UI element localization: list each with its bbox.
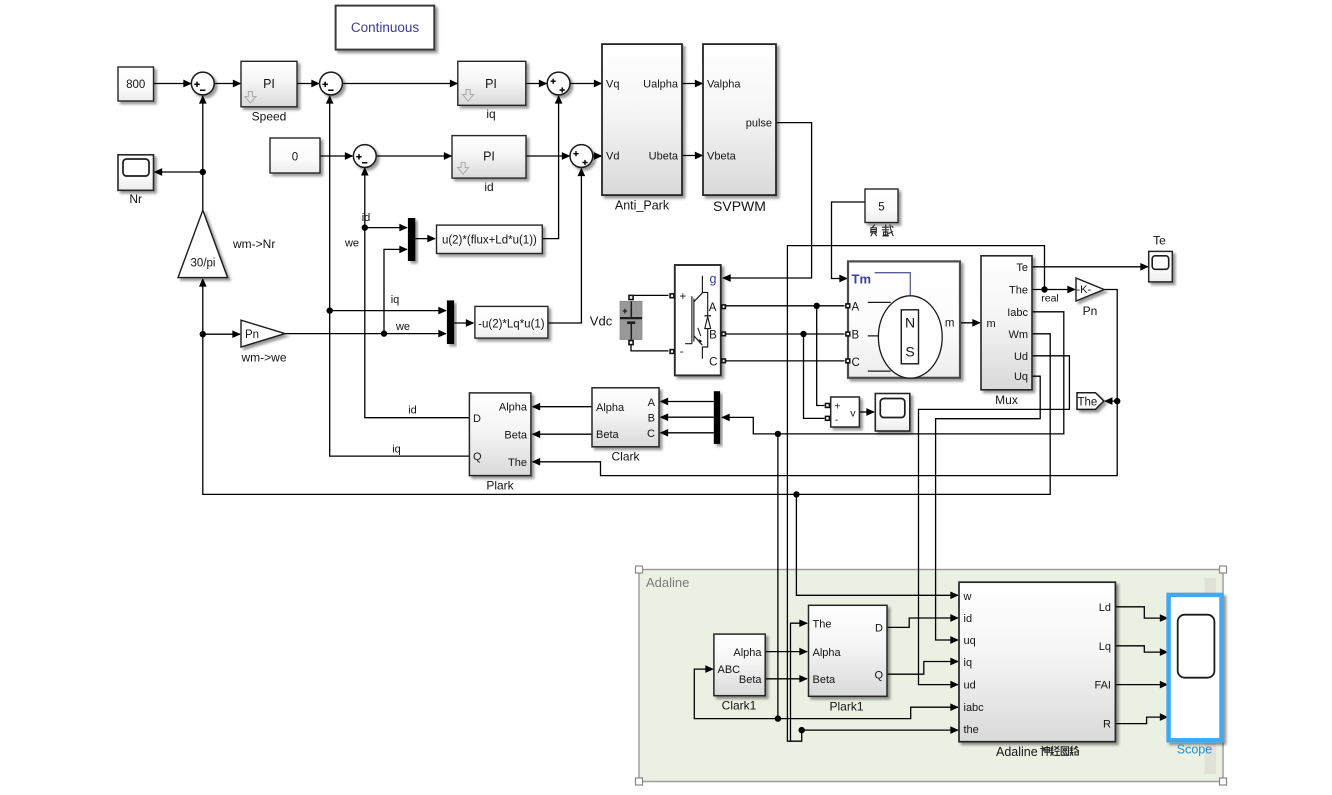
svg-text:id: id [362, 212, 371, 224]
wire Fcn Lq output up to sum Vd [548, 169, 581, 324]
svg-text:Vdc: Vdc [590, 314, 613, 329]
svg-text:Alpha: Alpha [733, 647, 762, 659]
wire inverter B to motor B [726, 333, 845, 335]
node junction theta real [1041, 286, 1047, 292]
DC voltage source Vdc [590, 295, 642, 346]
svg-text:A: A [709, 302, 717, 314]
svg-text:C: C [852, 357, 860, 369]
wire iabc loop into Clark1 ABC [694, 669, 778, 719]
svg-text:N: N [905, 315, 915, 331]
wire Plark1 Q to Adaline iq [887, 662, 958, 675]
svg-text:Beta: Beta [504, 429, 528, 441]
svg-text:Ld: Ld [1099, 602, 1111, 614]
wire speed feedback Wm: Mux Wm down and left to speed sum [203, 334, 1050, 495]
svg-text:B: B [648, 413, 655, 425]
constant 5 load [865, 189, 898, 236]
svg-text:Mux: Mux [995, 393, 1018, 407]
svg-text:uq: uq [964, 635, 976, 647]
wire iq branch to lower mux bar [330, 310, 446, 312]
svg-text:Vq: Vq [606, 79, 619, 91]
inverter bridge block [669, 265, 726, 375]
svg-text:D: D [875, 623, 883, 635]
svg-text:Vd: Vd [606, 151, 619, 163]
svg-text:w: w [963, 591, 972, 603]
wire constant 5 to motor Tm [832, 202, 866, 279]
svg-text:The: The [1009, 285, 1028, 297]
svg-text:Te: Te [1016, 262, 1028, 274]
svg-text:PI: PI [483, 150, 495, 164]
node junction id branch [362, 224, 368, 230]
wire branch to scope Nr [155, 171, 203, 173]
svg-text:m: m [945, 318, 955, 330]
wire w line into Adaline [796, 494, 958, 595]
wire 0 to sum id [320, 155, 352, 157]
svg-text:Iabc: Iabc [1007, 307, 1028, 319]
svg-text:C: C [709, 357, 717, 369]
node junction iabc demux [775, 431, 781, 437]
wire demux to Clark C [661, 432, 714, 434]
mux bar lower [447, 300, 454, 344]
scope Scope selected [1169, 595, 1222, 757]
mux bar upper [408, 218, 415, 261]
wire Clark Alpha to Plark Alpha [533, 406, 593, 408]
Continuous annotation block [336, 6, 435, 50]
svg-text:iq: iq [391, 294, 400, 306]
svg-text:Uq: Uq [1014, 371, 1028, 383]
svg-text:wm->Nr: wm->Nr [232, 237, 275, 251]
svg-text:PI: PI [263, 77, 275, 91]
svg-text:Tm: Tm [852, 272, 872, 287]
wire Adaline FAI to Scope [1115, 684, 1168, 686]
demux bar phases [714, 391, 720, 444]
wire Adaline Lq to Scope [1115, 646, 1168, 652]
Mux bus block [981, 256, 1032, 407]
wire the line into Adaline [802, 729, 958, 731]
subsystem Plark flipped [469, 393, 531, 493]
subsystem Plark1 [809, 605, 888, 713]
wire demux to Clark A [661, 401, 714, 403]
svg-text:-: - [835, 415, 838, 426]
svg-text:The: The [508, 457, 527, 469]
svg-text:Alpha: Alpha [596, 402, 625, 414]
svg-text:+: + [835, 402, 841, 413]
selection handle top-right [1220, 566, 1227, 573]
svg-text:ABC: ABC [718, 664, 741, 676]
svg-text:Pn: Pn [245, 329, 259, 341]
svg-text:The: The [813, 618, 832, 630]
wire pulse to inverter g [723, 123, 812, 278]
gain Pn wm-we [240, 320, 286, 364]
gain Pn2 [1076, 278, 1104, 318]
wire Ubeta to Vbeta [682, 155, 703, 157]
wire 800 to sum Speed [154, 83, 192, 85]
wire gain Pn2 to goto The tag [1104, 290, 1117, 402]
svg-text:Plark: Plark [486, 479, 514, 493]
wire Vdc plus to inverter [634, 294, 669, 296]
svg-text:S: S [905, 344, 914, 360]
subsystem SVPWM [703, 44, 776, 214]
svg-text:Beta: Beta [813, 674, 837, 686]
svg-text:Alpha: Alpha [499, 402, 528, 414]
PMSM motor block [845, 261, 960, 378]
svg-text:Valpha: Valpha [707, 79, 741, 91]
wire demux to Clark B [661, 416, 714, 418]
svg-text:+: + [680, 291, 687, 303]
svg-text:The: The [1078, 396, 1098, 408]
svg-text:-: - [680, 346, 684, 358]
svg-text:iq: iq [964, 657, 973, 669]
wire sum Vd to Anti_Park Vd [593, 155, 602, 157]
wire PI iq to sum Vq [526, 83, 547, 85]
svg-text:Scope: Scope [1177, 743, 1212, 757]
wire sum Vq to Anti_Park Vq [570, 83, 602, 85]
wire Adaline Ld to Scope [1115, 607, 1168, 618]
svg-text:Lq: Lq [1099, 641, 1111, 653]
selection handle bottom-left [636, 778, 643, 785]
constant 0 [270, 138, 320, 173]
subsystem PI iq [458, 61, 526, 121]
svg-text:v: v [850, 408, 856, 420]
svg-text:Te: Te [1153, 234, 1166, 248]
wire Clark Beta to Plark Beta [533, 433, 593, 435]
Fcn block flux expression [437, 225, 543, 253]
wire sum id to PI id [376, 155, 451, 157]
node junction The tag [1114, 398, 1120, 404]
node junction on speed feedback at Nr branch [200, 169, 206, 175]
svg-text:iabc: iabc [964, 702, 985, 714]
svg-text:iq: iq [392, 444, 401, 456]
svg-text:Clark: Clark [611, 450, 640, 464]
sum S5 Vd [570, 145, 593, 168]
wire voltmeter to scope Vab [859, 411, 874, 413]
svg-text:ud: ud [964, 680, 976, 692]
wire Plark1 D to Adaline id [887, 618, 958, 627]
constant 800 [118, 67, 154, 101]
wire Vdc minus to inverter [631, 345, 669, 351]
Fcn block Lq expression [475, 306, 548, 338]
svg-text:800: 800 [126, 79, 145, 91]
wire theta to Plark1 The [791, 623, 808, 741]
node junction B phase voltmeter [800, 331, 806, 337]
inverter port squares [669, 293, 674, 298]
wire Mux The to gain Pn2 [1032, 289, 1075, 291]
svg-text:Beta: Beta [739, 674, 763, 686]
svg-text:Adaline: Adaline [996, 745, 1038, 759]
node junction iabc bottom [775, 715, 781, 721]
svg-text:D: D [473, 413, 481, 425]
svg-text:pulse: pulse [746, 118, 772, 130]
svg-text:Plark1: Plark1 [829, 700, 863, 714]
svg-text:the: the [964, 724, 979, 736]
svg-text:B: B [709, 329, 717, 341]
wire Fcn flux output up to sum Vq [542, 96, 559, 239]
selection handle top-left [636, 566, 643, 573]
wire mux upper to Fcn flux [415, 238, 435, 240]
svg-text:m: m [987, 318, 996, 330]
svg-text:A: A [852, 301, 860, 313]
svg-text:Q: Q [874, 669, 883, 681]
node junction we branch [381, 330, 387, 336]
wire Mux Te to scope Te [1032, 266, 1148, 268]
svg-text:we: we [395, 321, 410, 333]
svg-text:id: id [964, 613, 973, 625]
svg-text:Continuous: Continuous [351, 20, 420, 35]
svg-text:FAI: FAI [1094, 680, 1111, 692]
svg-text:Ud: Ud [1014, 351, 1028, 363]
IGBT icon [685, 276, 708, 359]
wire Mux Ud down to Adaline ud [919, 356, 1070, 685]
wire inverter C to motor C [726, 360, 845, 362]
subsystem Clark flipped [592, 388, 659, 464]
svg-text:id: id [408, 405, 417, 417]
wire theta real up over and down to bottom hook [787, 246, 1044, 742]
svg-text:Clark1: Clark1 [722, 699, 757, 713]
svg-text:-u(2)*Lq*u(1): -u(2)*Lq*u(1) [478, 319, 545, 331]
sum S4 Vq [547, 72, 570, 95]
wire mux lower to Fcn Lq [454, 322, 473, 324]
subsystem Anti_Park [602, 44, 682, 212]
svg-text:Adaline: Adaline [646, 575, 689, 590]
svg-text:Nr: Nr [129, 192, 142, 206]
svg-text:-K-: -K- [1077, 284, 1092, 296]
scope Te [1149, 234, 1173, 282]
wire branch to gain Pn wm-we [203, 333, 240, 335]
wire sum iq to PI iq [342, 83, 457, 85]
wire gain Pn output we line to lower mux bar [285, 333, 446, 335]
svg-text:id: id [484, 180, 493, 194]
svg-text:Pn: Pn [1083, 304, 1098, 318]
wire Adaline R to Scope [1115, 717, 1168, 724]
svg-text:Wm: Wm [1008, 329, 1028, 341]
wire gain 30/pi apex up to sum Speed [202, 96, 204, 210]
svg-text:Speed: Speed [252, 110, 287, 124]
subsystem PI id [452, 136, 526, 194]
node junction at Pn branch [200, 331, 206, 337]
svg-text:B: B [852, 329, 860, 341]
svg-text:g: g [710, 272, 717, 286]
svg-text:Anti_Park: Anti_Park [615, 199, 670, 213]
subsystem Clark1 [714, 634, 765, 712]
node junction A phase voltmeter [814, 303, 820, 309]
gain 30/pi wm-Nr [178, 210, 275, 277]
svg-text:real: real [1041, 293, 1059, 305]
svg-text:Alpha: Alpha [813, 647, 842, 659]
sum S3 id loop [353, 145, 376, 168]
wire sum Speed to PI Speed [214, 83, 240, 85]
wire motor m to Mux m [960, 322, 980, 324]
wire Clark1 Alpha to Plark1 Alpha [765, 651, 807, 653]
wire inverter A to motor A [726, 305, 845, 307]
wire branch A to voltmeter plus [817, 306, 825, 406]
selection handle bottom-right [1220, 778, 1227, 785]
wire iabc branch down to Adaline and Clark1 loop [778, 434, 958, 719]
wire id branch to upper mux bar [365, 227, 407, 229]
voltmeter block [825, 397, 860, 427]
svg-text:Beta: Beta [596, 429, 620, 441]
svg-text:Vbeta: Vbeta [707, 151, 737, 163]
svg-text:wm->we: wm->we [240, 351, 286, 365]
svg-text:30/pi: 30/pi [191, 258, 216, 270]
svg-text:Ubeta: Ubeta [649, 151, 679, 163]
scope Nr [118, 155, 154, 206]
node junction iq branch [327, 307, 333, 313]
sum S1 speed [191, 72, 214, 95]
svg-text:iq: iq [486, 107, 495, 121]
goto tag The [1077, 393, 1104, 410]
node junction the line [799, 727, 805, 733]
svg-text:Ualpha: Ualpha [643, 79, 679, 91]
motor port squares [845, 303, 850, 308]
wire The feedback to Plark The [533, 401, 1118, 476]
wire branch B to voltmeter minus [804, 334, 825, 418]
subsystem Adaline neural network [959, 582, 1115, 759]
svg-text:0: 0 [292, 152, 298, 164]
wire Clark1 Beta to Plark1 Beta [765, 678, 807, 680]
wire Mux Iabc down to demux bar [722, 312, 1064, 434]
svg-text:SVPWM: SVPWM [713, 198, 766, 214]
svg-text:5: 5 [878, 202, 884, 214]
wire feedback into gain 30/pi [202, 279, 204, 334]
svg-text:PI: PI [485, 77, 497, 91]
wire Ualpha to Valpha [682, 83, 703, 85]
node junction w line [793, 491, 799, 497]
svg-text:u(2)*(flux+Ld*u(1)): u(2)*(flux+Ld*u(1)) [442, 235, 537, 247]
wire id from Plark D up to sum id [365, 168, 470, 418]
svg-text:R: R [1103, 719, 1111, 731]
wire PI Speed to sum iq [297, 83, 319, 85]
wire iq from Plark Q up to sum iq [330, 96, 470, 456]
svg-text:we: we [344, 238, 359, 250]
svg-text:C: C [647, 428, 655, 440]
diode icon [704, 315, 711, 317]
scope Vab [875, 394, 910, 432]
Adaline green region [636, 566, 1227, 785]
svg-text:Q: Q [473, 451, 482, 463]
svg-text:A: A [648, 397, 656, 409]
wire we branch up to upper mux bar [384, 249, 407, 333]
wire PI id to sum Vd [526, 155, 570, 157]
sum S2 iq loop [320, 72, 343, 95]
subsystem PI Speed [241, 61, 297, 123]
wire Mux Uq down to Adaline uq [936, 376, 1041, 640]
